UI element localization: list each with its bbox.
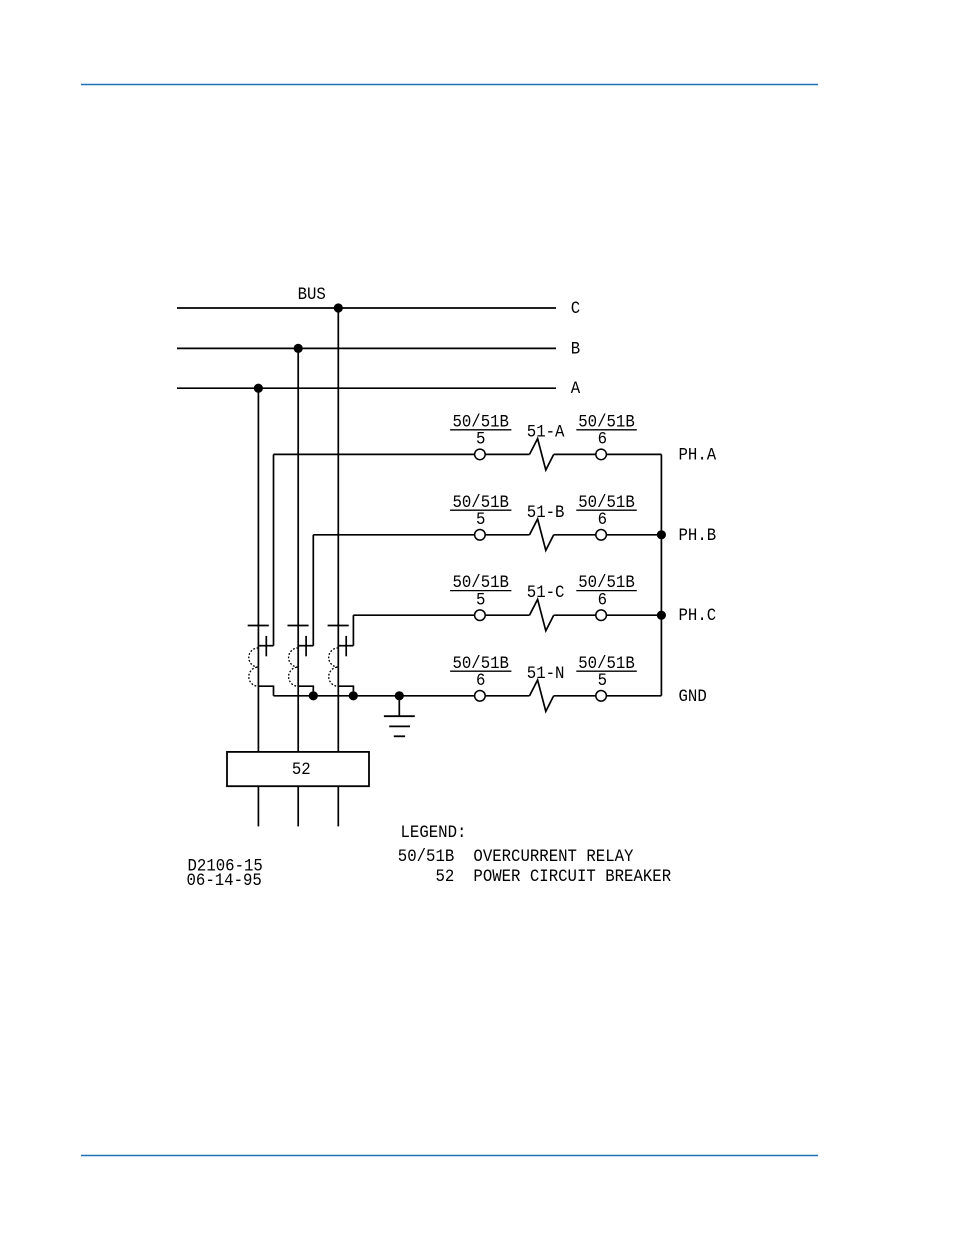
node: CT C neutral junction xyxy=(349,691,358,700)
wire: relay row 51-N left segment xyxy=(274,695,530,697)
wire: ground stem xyxy=(398,696,400,716)
fraction bar left of 51-N xyxy=(450,670,511,672)
svg-text:5: 5 xyxy=(476,591,485,611)
fraction bar left of 51-A xyxy=(450,429,511,431)
svg-text:LEGEND:: LEGEND: xyxy=(401,823,467,843)
svg-text:52: 52 xyxy=(436,867,455,887)
CT-B secondary bottom lead xyxy=(298,686,313,696)
overcurrent element 51-B (zigzag contact) xyxy=(530,519,554,550)
node: ground tap junction xyxy=(395,691,404,700)
bus line phase A xyxy=(177,387,556,389)
svg-text:6: 6 xyxy=(598,591,607,611)
wire: right-side common return bus xyxy=(660,454,662,695)
CT-C secondary winding xyxy=(329,648,339,686)
wire: phase A drop / CT primary xyxy=(257,388,259,752)
bottom page rule xyxy=(81,1155,818,1157)
svg-text:51-B: 51-B xyxy=(527,503,565,523)
wire: phase C drop / CT primary xyxy=(337,308,339,752)
svg-text:06-14-95: 06-14-95 xyxy=(187,871,262,891)
terminal right of 51-C xyxy=(596,610,607,621)
CT-A secondary bottom lead xyxy=(258,686,273,696)
svg-text:POWER CIRCUIT BREAKER: POWER CIRCUIT BREAKER xyxy=(473,867,671,887)
current transformer CT-B polarity tick (primary) xyxy=(288,625,309,627)
svg-text:GND: GND xyxy=(679,687,707,707)
wire: breaker 52 feeder phase C xyxy=(337,786,339,826)
terminal right of 51-A xyxy=(596,449,607,460)
svg-text:OVERCURRENT RELAY: OVERCURRENT RELAY xyxy=(473,847,633,867)
svg-text:A: A xyxy=(571,379,580,399)
CT-A secondary winding xyxy=(249,648,259,686)
CT-B secondary top lead xyxy=(298,645,313,647)
svg-text:PH.A: PH.A xyxy=(679,446,717,466)
svg-text:5: 5 xyxy=(598,671,607,691)
svg-text:50/51B: 50/51B xyxy=(398,847,454,867)
overcurrent element 51-A (zigzag contact) xyxy=(530,439,554,470)
fraction bar right of 51-C xyxy=(576,590,637,592)
CT-A secondary top lead xyxy=(258,645,273,647)
CT-A polarity tick (secondary) xyxy=(265,636,267,656)
node: phase C tap junction xyxy=(334,303,343,312)
wire: breaker 52 feeder phase B xyxy=(297,786,299,826)
top page rule xyxy=(81,84,818,86)
wire: relay row 51-A right segment xyxy=(554,453,662,455)
terminal right of 51-N xyxy=(596,691,607,702)
terminal 5/6 left of 51-B xyxy=(475,530,486,541)
wire: relay row 51-C right segment xyxy=(554,614,662,616)
fraction bar right of 51-A xyxy=(576,429,637,431)
svg-text:BUS: BUS xyxy=(298,285,326,305)
node: CT B neutral junction xyxy=(309,691,318,700)
svg-text:5: 5 xyxy=(476,430,485,450)
wire: relay row 51-B right segment xyxy=(554,534,662,536)
svg-text:C: C xyxy=(571,299,580,319)
CT-C secondary top lead xyxy=(338,645,353,647)
node: phase A tap junction xyxy=(254,384,263,393)
ground symbol xyxy=(384,716,415,736)
wire: CT A secondary lead to relay row xyxy=(273,454,275,645)
fraction bar right of 51-N xyxy=(576,670,637,672)
bus line phase C xyxy=(177,307,556,309)
circuit breaker 52 box xyxy=(227,752,369,786)
current transformer CT-A polarity tick (primary) xyxy=(248,625,269,627)
fraction bar left of 51-B xyxy=(450,509,511,511)
wire: relay row 51-B left segment xyxy=(313,534,529,536)
svg-text:5: 5 xyxy=(476,510,485,530)
wire: CT C secondary lead to relay row xyxy=(352,615,354,646)
terminal right of 51-B xyxy=(596,530,607,541)
overcurrent element 51-C (zigzag contact) xyxy=(530,599,554,630)
wire: phase B drop / CT primary xyxy=(297,348,299,752)
svg-text:PH.C: PH.C xyxy=(679,606,717,626)
CT-C secondary bottom lead xyxy=(338,686,353,696)
terminal 5/6 left of 51-A xyxy=(475,449,486,460)
current transformer CT-C polarity tick (primary) xyxy=(328,625,349,627)
wire: relay row 51-N right segment xyxy=(554,695,662,697)
svg-text:51-C: 51-C xyxy=(527,583,565,603)
wire: relay row 51-A left segment xyxy=(274,453,530,455)
fraction bar right of 51-B xyxy=(576,509,637,511)
wire: CT B secondary lead to relay row xyxy=(312,535,314,646)
CT-C polarity tick (secondary) xyxy=(345,636,347,656)
svg-text:52: 52 xyxy=(292,760,311,780)
svg-text:B: B xyxy=(571,340,580,360)
terminal 5/6 left of 51-N xyxy=(475,691,486,702)
node: phase B tap junction xyxy=(294,344,303,353)
svg-text:PH.B: PH.B xyxy=(679,526,717,546)
wire: breaker 52 feeder phase A xyxy=(257,786,259,826)
svg-text:51-A: 51-A xyxy=(527,423,565,443)
overcurrent element 51-N (zigzag contact) xyxy=(530,680,554,711)
svg-text:6: 6 xyxy=(598,510,607,530)
CT-B secondary winding xyxy=(289,648,299,686)
fraction bar left of 51-C xyxy=(450,590,511,592)
wire: relay row 51-C left segment xyxy=(353,614,529,616)
node: junction at PH.B xyxy=(657,530,666,539)
terminal 5/6 left of 51-C xyxy=(475,610,486,621)
CT-B polarity tick (secondary) xyxy=(305,636,307,656)
node: junction at PH.C xyxy=(657,611,666,620)
svg-text:51-N: 51-N xyxy=(527,664,565,684)
svg-text:6: 6 xyxy=(598,430,607,450)
svg-text:6: 6 xyxy=(476,671,485,691)
bus line phase B xyxy=(177,347,556,349)
